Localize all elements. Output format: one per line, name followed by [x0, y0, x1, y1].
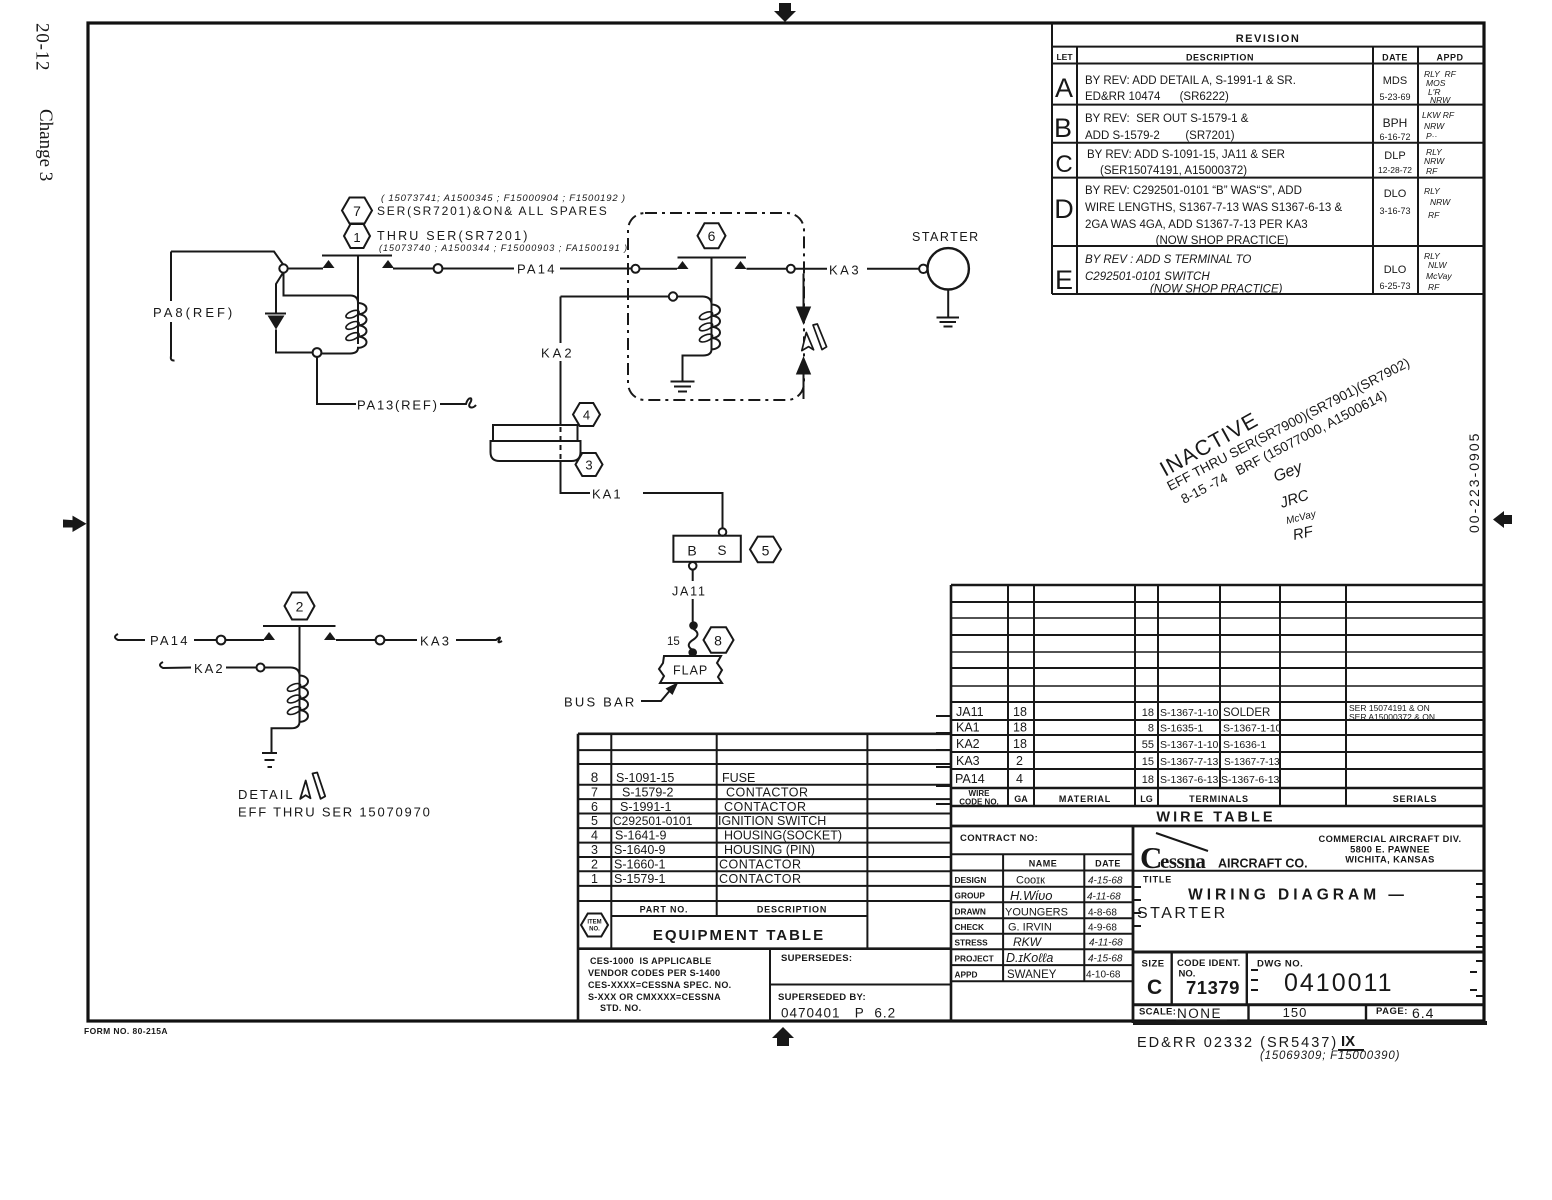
svg-text:BY REV: SER OUT S-1579-1 &: BY REV: SER OUT S-1579-1 &	[1085, 113, 1249, 125]
svg-text:essna: essna	[1160, 849, 1206, 873]
svg-text:0410011: 0410011	[1284, 969, 1393, 997]
wire KA2 vertical upper	[560, 297, 562, 344]
junction terminal circle coil bottom	[313, 348, 322, 357]
svg-text:LKW RF: LKW RF	[1422, 110, 1455, 120]
svg-text:LG: LG	[1140, 794, 1153, 804]
svg-text:150: 150	[1283, 1005, 1308, 1020]
svg-text:MATERIAL: MATERIAL	[1059, 794, 1111, 804]
wire K6 right	[747, 268, 787, 270]
svg-text:0470401 P 6.2: 0470401 P 6.2	[781, 1006, 896, 1021]
item flag hexagon 1	[344, 224, 370, 248]
svg-text:B: B	[687, 543, 696, 559]
svg-text:ADD S-1579-2 (SR7201): ADD S-1579-2 (SR7201)	[1085, 130, 1235, 142]
svg-text:S-1367-1-10: S-1367-1-10	[1160, 739, 1219, 751]
svg-text:KA2: KA2	[194, 661, 225, 676]
svg-text:4-11-68: 4-11-68	[1089, 938, 1123, 949]
svg-text:1: 1	[353, 230, 360, 245]
svg-text:71379: 71379	[1186, 977, 1240, 998]
terminal circle KA2 detail	[257, 664, 265, 672]
svg-text:S-1367-6-13: S-1367-6-13	[1221, 774, 1280, 786]
svg-text:Change 3: Change 3	[35, 109, 56, 181]
terminal circle starter	[919, 265, 927, 273]
svg-text:18: 18	[1013, 721, 1027, 735]
svg-text:STRESS: STRESS	[955, 938, 989, 948]
svg-text:HOUSING (PIN): HOUSING (PIN)	[724, 843, 815, 857]
svg-text:DATE: DATE	[1382, 53, 1408, 63]
svg-text:4-9-68: 4-9-68	[1088, 923, 1117, 934]
wire KA2 tail tick	[160, 662, 191, 668]
wire KA3 to starter	[867, 268, 919, 270]
item no hexagon symbol	[581, 914, 608, 937]
wire K1 right contact to PA14 terminal	[393, 268, 434, 270]
terminal circle PA14 detail	[217, 636, 226, 645]
svg-text:A: A	[1055, 73, 1073, 103]
svg-text:8: 8	[1148, 723, 1154, 735]
wire K6 left	[640, 268, 678, 270]
svg-text:FLAP: FLAP	[673, 664, 708, 678]
svg-text:JA11: JA11	[672, 585, 707, 599]
bus source FLAP box (torn edges)	[659, 656, 722, 683]
svg-text:B: B	[1054, 113, 1072, 143]
detail contactor K2 fixed contact right	[324, 632, 336, 640]
svg-text:TITLE: TITLE	[1143, 875, 1172, 885]
svg-text:KA2: KA2	[956, 737, 980, 751]
svg-text:(15073740 ; A1500344 ; F15000: (15073740 ; A1500344 ; F15000903 ; FA150…	[379, 243, 628, 253]
ground symbol starter	[937, 318, 960, 327]
svg-text:S-1991-1: S-1991-1	[620, 800, 671, 814]
wire starter to ground	[947, 290, 949, 318]
contactor K6 fixed contact left	[677, 261, 689, 269]
svg-text:WIRE LENGTHS, S1367-7-13 WAS S: WIRE LENGTHS, S1367-7-13 WAS S1367-6-13 …	[1085, 202, 1342, 214]
svg-text:BUS BAR: BUS BAR	[564, 695, 636, 710]
svg-text:CONTACTOR: CONTACTOR	[724, 800, 807, 814]
svg-text:STARTER: STARTER	[912, 230, 980, 244]
svg-text:P··: P··	[1426, 131, 1437, 141]
svg-text:BY REV: ADD S-1091-15, JA11 &: BY REV: ADD S-1091-15, JA11 & SER	[1087, 149, 1285, 161]
contactor K1 movable contact bar	[322, 255, 392, 257]
wire terminal to coil	[677, 296, 703, 298]
svg-text:CONTRACT NO:: CONTRACT NO:	[960, 833, 1038, 844]
wire PA8 vertical lower with hook	[171, 322, 175, 361]
svg-text:S-1640-9: S-1640-9	[614, 843, 665, 857]
wire coil K6 to ground	[683, 356, 698, 382]
svg-text:KA1: KA1	[592, 487, 623, 502]
svg-text:DESCRIPTION: DESCRIPTION	[1186, 53, 1254, 63]
terminal circle left of K1	[279, 264, 287, 272]
title block contract box grid	[951, 826, 1133, 1023]
svg-text:4: 4	[583, 408, 590, 423]
svg-text:C: C	[1147, 976, 1162, 999]
svg-text:4-8-68: 4-8-68	[1088, 908, 1117, 919]
fuse F1 terminal dot upper	[689, 621, 698, 630]
svg-text:4-15-68: 4-15-68	[1088, 954, 1123, 965]
svg-text:6: 6	[708, 228, 716, 244]
dashed assembly boundary of contactor K6	[628, 213, 804, 400]
svg-text:DESCRIPTION: DESCRIPTION	[757, 905, 827, 915]
svg-text:STARTER: STARTER	[1137, 905, 1228, 922]
diode CR1 anode triangle	[268, 316, 285, 330]
contactor K6 armature stem	[711, 258, 713, 351]
svg-text:DATE: DATE	[1095, 859, 1121, 869]
svg-text:S-1660-1: S-1660-1	[614, 857, 665, 871]
svg-text:FUSE: FUSE	[722, 771, 755, 785]
contactor K6 movable contact bar	[678, 257, 747, 259]
scale row	[1133, 1005, 1487, 1023]
contactor K6 fixed contact right	[735, 261, 747, 269]
svg-text:FORM NO. 80-215A: FORM NO. 80-215A	[84, 1026, 168, 1036]
svg-text:WICHITA, KANSAS: WICHITA, KANSAS	[1345, 855, 1435, 865]
svg-text:SIZE: SIZE	[1142, 959, 1165, 970]
vendor code notes box divider	[769, 949, 771, 1021]
svg-text:7: 7	[353, 203, 361, 219]
svg-text:SER A15000372 & ON: SER A15000372 & ON	[1349, 712, 1435, 722]
svg-text:RKW: RKW	[1013, 935, 1043, 949]
svg-text:Cooɪк: Cooɪк	[1016, 875, 1045, 887]
svg-text:KA3: KA3	[829, 263, 861, 278]
svg-text:S-1367-7-13: S-1367-7-13	[1224, 757, 1280, 768]
svg-text:5-23-69: 5-23-69	[1379, 92, 1410, 102]
svg-text:SERIALS: SERIALS	[1393, 794, 1438, 804]
wire through connector (dashed)	[560, 427, 562, 459]
vendor code notes text	[588, 956, 731, 1013]
svg-text:DLP: DLP	[1384, 150, 1405, 162]
svg-text:C: C	[1055, 151, 1072, 178]
svg-text:SUPERSEDES:: SUPERSEDES:	[781, 953, 852, 964]
detail A pointer arrow up	[796, 356, 811, 375]
svg-text:2: 2	[296, 599, 304, 615]
wire PA8 vertical upper	[170, 252, 172, 302]
dwg no bracket ticks	[1251, 961, 1484, 996]
terminal circle switch B post top	[719, 528, 727, 536]
svg-text:S-1091-15: S-1091-15	[616, 771, 674, 785]
wire to K2 left contact	[225, 639, 264, 641]
svg-text:WIRE TABLE: WIRE TABLE	[1156, 810, 1275, 826]
svg-text:12-28-72: 12-28-72	[1378, 165, 1412, 175]
item flag hexagon 7	[342, 198, 372, 224]
svg-text:BY REV : ADD S TERMINAL TO: BY REV : ADD S TERMINAL TO	[1085, 254, 1251, 266]
svg-text:NO.: NO.	[589, 927, 600, 933]
registration arrow right (points left)	[1493, 511, 1512, 528]
svg-text:3-16-73: 3-16-73	[1379, 206, 1410, 216]
svg-text:CONTACTOR: CONTACTOR	[719, 857, 802, 871]
svg-text:S-XXX OR CMXXXX=CESSNA: S-XXX OR CMXXXX=CESSNA	[588, 992, 721, 1002]
svg-text:NRW: NRW	[1424, 156, 1445, 166]
svg-text:8: 8	[714, 633, 722, 649]
terminal circle K6 left	[632, 265, 640, 273]
svg-text:AIRCRAFT CO.: AIRCRAFT CO.	[1218, 857, 1308, 871]
svg-text:RF: RF	[1426, 166, 1438, 176]
svg-text:STD. NO.: STD. NO.	[600, 1003, 641, 1013]
wire KA1 drop from connector	[561, 461, 591, 493]
wire KA2 to terminal	[226, 667, 256, 669]
svg-text:GROUP: GROUP	[955, 891, 986, 901]
svg-text:EQUIPMENT TABLE: EQUIPMENT TABLE	[653, 927, 825, 944]
svg-text:ITEM: ITEM	[587, 920, 601, 926]
svg-text:DWG NO.: DWG NO.	[1257, 959, 1303, 970]
svg-text:SCALE:: SCALE:	[1139, 1007, 1176, 1018]
svg-text:S-1635-1: S-1635-1	[1160, 723, 1203, 735]
wire PA14 segment b	[560, 268, 632, 270]
wire PA14 segment a	[442, 268, 514, 270]
svg-text:(15069309; F15000390): (15069309; F15000390)	[1260, 1050, 1400, 1062]
svg-text:4-10-68: 4-10-68	[1086, 970, 1121, 981]
detail contactor K2 movable contact bar	[263, 625, 336, 627]
svg-text:DLO: DLO	[1384, 264, 1407, 276]
wire KA2 into coil K6	[561, 296, 669, 298]
ground symbol K2	[262, 753, 277, 767]
svg-text:NONE: NONE	[1177, 1006, 1222, 1021]
svg-text:G. IRVIN: G. IRVIN	[1008, 922, 1052, 934]
svg-text:( 15073741; A1500345 ; F150009: ( 15073741; A1500345 ; F15000904 ; F1500…	[381, 193, 626, 204]
svg-text:(NOW SHOP PRACTICE): (NOW SHOP PRACTICE)	[1156, 235, 1289, 247]
svg-text:NAME: NAME	[1029, 859, 1058, 869]
terminal circle coil K6 top	[669, 292, 677, 300]
svg-text:18: 18	[1013, 705, 1027, 719]
svg-text:ED&RR 02332 (SR5437): ED&RR 02332 (SR5437)	[1137, 1035, 1338, 1051]
svg-text:REVISION: REVISION	[1236, 33, 1301, 45]
wire table left tick marks	[936, 716, 951, 804]
svg-text:S: S	[717, 543, 726, 558]
revision table frame	[1052, 23, 1484, 294]
svg-text:HOUSING(SOCKET): HOUSING(SOCKET)	[724, 829, 842, 843]
wire diode branch lower	[276, 330, 313, 353]
connector housing pin (item 3) lower half	[491, 441, 581, 461]
svg-text:WIRING DIAGRAM —: WIRING DIAGRAM —	[1188, 887, 1408, 904]
svg-text:(NOW SHOP PRACTICE): (NOW SHOP PRACTICE)	[1150, 284, 1283, 296]
item flag hexagon 5	[750, 537, 781, 563]
detail A flag symbol	[802, 324, 827, 351]
svg-text:20-12: 20-12	[32, 23, 53, 71]
svg-text:RF: RF	[1428, 210, 1440, 220]
wire diode branch upper diagonal	[276, 272, 284, 313]
registration arrow bottom (points up)	[772, 1027, 794, 1046]
svg-text:NLW: NLW	[1428, 260, 1448, 270]
svg-text:(SER15074191, A15000372): (SER15074191, A15000372)	[1100, 165, 1247, 177]
svg-text:CODE IDENT.: CODE IDENT.	[1177, 958, 1240, 969]
svg-text:6.4: 6.4	[1412, 1005, 1434, 1021]
svg-text:PA14: PA14	[517, 262, 557, 277]
svg-text:PROJECT: PROJECT	[955, 954, 994, 964]
coil of contactor K1	[322, 296, 367, 354]
svg-text:PART NO.: PART NO.	[640, 905, 689, 915]
wire KA2 vertical lower	[560, 361, 562, 425]
svg-text:18: 18	[1142, 774, 1154, 786]
svg-text:LET: LET	[1056, 52, 1073, 62]
svg-text:NRW: NRW	[1430, 197, 1451, 207]
svg-text:KA1: KA1	[956, 721, 980, 735]
item flag hexagon 4	[573, 403, 600, 426]
registration arrow left (points right)	[63, 516, 87, 532]
svg-text:KA3: KA3	[956, 754, 980, 768]
contactor K1 fixed contact right	[382, 260, 394, 268]
svg-text:4-15-68: 4-15-68	[1088, 876, 1123, 887]
item flag hexagon 6	[698, 223, 726, 248]
svg-text:6-16-72: 6-16-72	[1379, 132, 1410, 142]
wire table grid	[951, 585, 1484, 826]
contactor K1 fixed contact left	[323, 260, 335, 268]
wire PA14 tail tick	[115, 634, 145, 640]
svg-text:MDS: MDS	[1383, 75, 1407, 87]
detail contactor K2 fixed contact left	[263, 632, 275, 640]
wire PA8 top run	[171, 252, 284, 266]
fuse F1 squiggle element	[689, 629, 698, 650]
svg-text:CODE NO.: CODE NO.	[959, 798, 999, 807]
svg-text:4: 4	[1016, 772, 1023, 786]
svg-text:BY REV: ADD DETAIL A, S-1991-: BY REV: ADD DETAIL A, S-1991-1 & SR.	[1085, 75, 1296, 87]
svg-text:1: 1	[591, 872, 598, 886]
ignition switch S1 body (item 5)	[673, 536, 740, 562]
svg-text:IX: IX	[1341, 1033, 1355, 1050]
starter motor circle M1	[928, 248, 969, 289]
svg-text:DLO: DLO	[1384, 188, 1407, 200]
svg-text:SOLDER: SOLDER	[1223, 707, 1270, 719]
wire coil top feed	[284, 272, 352, 296]
svg-text:BY REV: C292501-0101 “B” WAS“S: BY REV: C292501-0101 “B” WAS“S”, ADD	[1085, 185, 1302, 197]
terminal circle K6 right	[787, 265, 795, 273]
terminal circle PA14	[434, 264, 443, 273]
svg-text:S-1367-1-10: S-1367-1-10	[1160, 707, 1219, 719]
bus bar pointer arrow	[641, 688, 672, 701]
svg-text:NRW: NRW	[1424, 121, 1445, 131]
svg-text:IGNITION SWITCH: IGNITION SWITCH	[718, 814, 826, 828]
svg-text:JA11: JA11	[956, 705, 984, 719]
svg-text:8: 8	[591, 770, 599, 785]
size/code/dwg row	[1133, 952, 1484, 1005]
svg-text:C292501-0101: C292501-0101	[613, 814, 693, 828]
svg-text:18: 18	[1013, 737, 1027, 751]
svg-text:C292501-0101 SWITCH: C292501-0101 SWITCH	[1085, 271, 1210, 283]
svg-text:PAGE:: PAGE:	[1376, 1006, 1408, 1017]
svg-text:3: 3	[591, 843, 598, 857]
svg-text:COMMERCIAL AIRCRAFT DIV.: COMMERCIAL AIRCRAFT DIV.	[1318, 834, 1461, 844]
svg-text:2: 2	[591, 857, 598, 871]
svg-text:5800 E. PAWNEE: 5800 E. PAWNEE	[1350, 845, 1430, 855]
svg-text:APPD: APPD	[955, 970, 978, 980]
svg-text:S-1579-1: S-1579-1	[614, 872, 665, 886]
svg-text:6: 6	[591, 800, 598, 814]
wire JA11 upper	[692, 570, 694, 581]
svg-text:4: 4	[591, 829, 598, 843]
item flag hexagon 3	[576, 453, 603, 476]
svg-text:18: 18	[1142, 707, 1154, 719]
svg-text:EFF THRU SER 15070970: EFF THRU SER 15070970	[238, 805, 432, 820]
signature rows	[955, 875, 994, 980]
wire KA3 tail	[456, 638, 502, 643]
title area tick marks	[1133, 884, 1484, 947]
svg-text:S-1367-7-13: S-1367-7-13	[1160, 756, 1219, 768]
svg-text:THRU SER(SR7201): THRU SER(SR7201)	[377, 229, 530, 243]
diode CR1 cathode bar	[265, 313, 286, 315]
wire PA13 drop	[317, 357, 356, 404]
svg-text:RF: RF	[1428, 282, 1440, 292]
svg-text:SER(SR7201)&ON& ALL SPARES: SER(SR7201)&ON& ALL SPARES	[377, 204, 609, 218]
svg-text:PA14: PA14	[955, 772, 985, 786]
svg-text:S-1367-6-13: S-1367-6-13	[1160, 774, 1219, 786]
fuse F1 terminal dot lower	[688, 648, 697, 657]
wire PA13 tail with squiggle	[440, 398, 476, 407]
svg-text:SUPERSEDED BY:: SUPERSEDED BY:	[778, 992, 866, 1003]
svg-text:15: 15	[1142, 756, 1154, 768]
cessna logo block	[1133, 870, 1484, 872]
terminal circle KA3 detail	[376, 636, 385, 645]
svg-text:CES-XXXX=CESSNA SPEC. NO.: CES-XXXX=CESSNA SPEC. NO.	[588, 980, 731, 990]
wire KA1 run to switch	[643, 493, 723, 528]
svg-text:PA8(REF): PA8(REF)	[153, 305, 235, 320]
svg-text:S-1636-1: S-1636-1	[1223, 739, 1266, 751]
svg-text:5: 5	[762, 543, 770, 559]
detail A flag symbol (legend)	[300, 773, 325, 799]
wire to KA3 label	[384, 639, 417, 641]
svg-text:3: 3	[585, 458, 592, 473]
equipment table grid	[578, 734, 950, 1021]
svg-text:DESIGN: DESIGN	[955, 875, 987, 885]
coil of contactor K6	[697, 297, 720, 356]
wire JA11 lower	[692, 599, 694, 622]
ground symbol K6	[671, 382, 695, 392]
svg-text:PA13(REF): PA13(REF)	[357, 398, 439, 413]
svg-text:6-25-73: 6-25-73	[1379, 281, 1410, 291]
svg-text:55: 55	[1142, 739, 1154, 751]
svg-text:GA: GA	[1014, 794, 1028, 804]
svg-text:PA14: PA14	[150, 633, 190, 648]
wire K2 right to terminal	[336, 639, 375, 641]
svg-text:YOUNGERS: YOUNGERS	[1005, 907, 1068, 919]
svg-text:KA2: KA2	[541, 346, 575, 361]
svg-text:DRAWN: DRAWN	[955, 907, 986, 917]
border frame of sheet	[88, 23, 1484, 1021]
wire PA14 to terminal	[194, 639, 216, 641]
svg-text:S-1579-2: S-1579-2	[622, 786, 673, 800]
detail A pointer arrow down	[803, 274, 805, 308]
detail contactor K2 armature stem	[299, 626, 301, 722]
wire KA3 out of box	[795, 268, 827, 270]
svg-text:McVay: McVay	[1426, 271, 1452, 281]
svg-text:DETAIL: DETAIL	[238, 787, 295, 802]
svg-text:BPH: BPH	[1383, 116, 1408, 130]
svg-text:ED&RR 10474 (SR6222): ED&RR 10474 (SR6222)	[1085, 91, 1229, 103]
svg-text:CONTACTOR: CONTACTOR	[719, 872, 802, 886]
svg-text:15: 15	[667, 636, 680, 648]
wire coil K2 to ground	[272, 728, 286, 752]
svg-text:KA3: KA3	[420, 634, 451, 649]
coil of detail contactor K2	[285, 668, 308, 729]
svg-text:4-11-68: 4-11-68	[1087, 892, 1121, 903]
svg-text:SWANEY: SWANEY	[1007, 969, 1057, 981]
registration arrow top (points down)	[774, 3, 796, 22]
svg-text:TERMINALS: TERMINALS	[1189, 794, 1249, 804]
svg-text:D.ɪKοℓℓa: D.ɪKοℓℓa	[1006, 951, 1053, 965]
svg-text:E: E	[1055, 265, 1073, 295]
wire terminal to coil K2	[265, 667, 292, 669]
item flag hexagon 8	[704, 627, 734, 653]
svg-text:2GA WAS 4GA, ADD S1367-7-13 PE: 2GA WAS 4GA, ADD S1367-7-13 PER KA3	[1085, 219, 1308, 231]
svg-text:APPD: APPD	[1436, 53, 1463, 63]
svg-text:S-1641-9: S-1641-9	[615, 829, 666, 843]
division address	[1318, 834, 1461, 865]
svg-text:RLY: RLY	[1424, 186, 1441, 196]
svg-text:S-1367-1-10: S-1367-1-10	[1223, 723, 1282, 735]
connector housing socket (item 4) upper half	[493, 425, 578, 441]
svg-text:VENDOR CODES PER S-1400: VENDOR CODES PER S-1400	[588, 968, 720, 978]
svg-text:5: 5	[591, 814, 598, 828]
svg-text:CHECK: CHECK	[955, 922, 985, 932]
item flag hexagon 2	[285, 593, 315, 620]
svg-text:2: 2	[1016, 754, 1023, 768]
svg-text:CES-1000 IS APPLICABLE: CES-1000 IS APPLICABLE	[590, 956, 712, 966]
terminal circle switch bottom	[689, 562, 697, 570]
svg-text:CONTACTOR: CONTACTOR	[726, 786, 809, 800]
svg-text:NRW: NRW	[1430, 95, 1451, 105]
